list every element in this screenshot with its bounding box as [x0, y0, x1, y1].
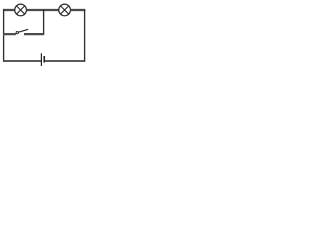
wire top-right segment — [70, 9, 85, 11]
wire switch to middle vertical — [24, 33, 44, 35]
wire middle vertical — [43, 9, 45, 34]
switch S1 — [16, 29, 28, 33]
wire top-middle segment — [26, 9, 58, 11]
lamp L1 — [15, 4, 27, 16]
lamp L2 — [59, 4, 71, 16]
wire left edge — [3, 9, 5, 61]
wire top-left segment — [3, 9, 15, 11]
battery B1 — [41, 53, 44, 66]
wire bottom-left segment — [3, 60, 41, 62]
wire bottom-right segment — [45, 60, 85, 62]
wire switch feed — [3, 33, 16, 35]
wire right edge — [84, 9, 86, 61]
